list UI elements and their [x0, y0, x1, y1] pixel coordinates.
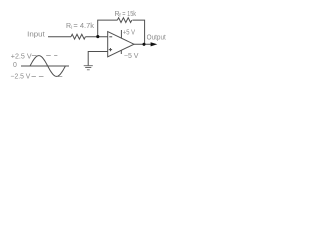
svg-text:+2.5 V: +2.5 V	[11, 51, 32, 60]
wire input lead	[48, 36, 71, 38]
node A junction dot (inverting input)	[96, 35, 99, 38]
wire Ri to op-amp inverting input	[86, 36, 108, 38]
power wire +5V	[120, 30, 122, 38]
wire output	[134, 43, 151, 45]
dashed level +2.5V	[32, 55, 58, 57]
op-amp plus sign	[109, 48, 112, 51]
svg-text:Input: Input	[27, 30, 45, 39]
resistor Ri	[71, 34, 85, 39]
sine wave	[30, 56, 65, 77]
ground bar 3	[87, 69, 90, 71]
wire feedback right vertical	[132, 20, 144, 44]
wire noninverting input to ground	[88, 52, 108, 66]
svg-text:+5 V: +5 V	[123, 29, 135, 36]
svg-text:= 15k: = 15k	[122, 11, 136, 18]
node B junction dot (output)	[142, 43, 145, 46]
ground bar 2	[85, 66, 91, 68]
svg-text:= 4.7k: = 4.7k	[73, 23, 94, 30]
op-amp U1 body	[108, 32, 134, 57]
svg-text:i: i	[71, 25, 72, 31]
resistor Rf	[117, 18, 131, 23]
output arrowhead	[151, 42, 158, 46]
svg-text:−5 V: −5 V	[124, 53, 139, 60]
power wire -5V	[120, 50, 122, 54]
svg-text:0: 0	[13, 62, 17, 69]
dashed level -2.5V	[32, 76, 63, 78]
svg-text:Output: Output	[147, 32, 167, 41]
wire feedback left vertical	[98, 20, 118, 37]
zero axis	[21, 65, 69, 67]
svg-text:−2.5 V: −2.5 V	[11, 71, 31, 80]
ground bar 1	[84, 65, 93, 67]
op-amp minus sign	[109, 36, 112, 38]
